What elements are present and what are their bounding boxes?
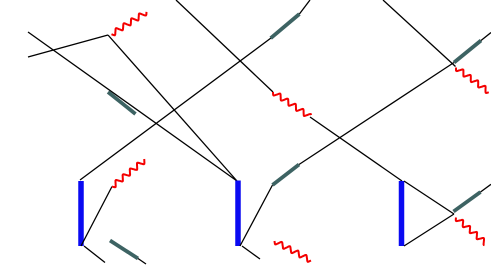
photon squiggle P2b (unit2 bottom) — [275, 241, 312, 262]
cut bar3 (blue) — [399, 181, 405, 246]
cut bar2 (blue) — [235, 181, 241, 247]
wire d2: P2a end to cut3 top — [310, 117, 402, 181]
boson T2a (teal, top unit2) — [271, 14, 300, 38]
cut bar1 (blue) — [78, 181, 84, 246]
photon squiggle P3a (unit3 top) — [456, 68, 489, 94]
wire: tip above T3a — [481, 33, 491, 41]
wire: cut2 bottom outgoing stub — [242, 246, 260, 259]
photon squiggle P2a (unit2 mid) — [273, 92, 311, 116]
boson T1b (teal, bottom unit1) — [110, 241, 138, 259]
photon squiggle P1b (unit1 bottom) — [112, 159, 144, 187]
boson T2b (teal, start of g2) — [273, 165, 300, 186]
photon squiggle P3b (unit3 bottom) — [456, 218, 485, 246]
wire b1: vertex to cut2 top — [108, 35, 237, 181]
wire: cut3 bottom to vertex3b — [404, 214, 454, 246]
wire: T3b black tip — [481, 184, 491, 192]
wire s2: cut2 bottom to teal T2b — [240, 185, 273, 246]
wire g2: long line to unit3 teal — [299, 63, 454, 165]
wire w1: upper-left long fermion to cut2 top — [28, 32, 237, 181]
boson T1a (teal, over w1) — [108, 92, 136, 114]
wire: tip above T2a — [299, 0, 310, 14]
boson T3a (teal, top unit3) — [454, 41, 481, 63]
wire: T1b black tip — [138, 259, 146, 265]
wire: cut3 top to vertex3b — [404, 181, 454, 214]
wire s1: cut1 bottom to photon P1b — [81, 187, 112, 247]
wire g1: cut1 top to unit2 teal — [80, 38, 271, 180]
wire c3: from top edge to vertex3a — [383, 0, 456, 67]
wire: cut1 bottom outgoing stub — [84, 246, 105, 263]
wire a1: incoming fermion to photon vertex — [28, 35, 108, 57]
wire c2: from top edge to photon P2a — [176, 0, 273, 92]
photon squiggle P1a (unit1 top) — [112, 12, 147, 35]
boson T3b (teal, bottom unit3) — [454, 192, 481, 212]
